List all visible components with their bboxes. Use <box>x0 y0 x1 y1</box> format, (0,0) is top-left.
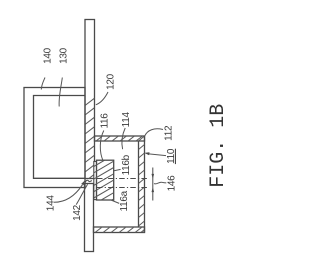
svg-text:130: 130 <box>59 47 70 64</box>
housing inner wall / cavity 130 <box>34 96 86 179</box>
hatching of right wall <box>139 136 145 235</box>
hatching of lead bar 120 <box>85 89 95 191</box>
dimension line for 146 <box>152 168 154 201</box>
leader for 116 <box>100 131 104 162</box>
reference dash-dot line (bottom of overlap) <box>97 187 148 189</box>
leader for 140 <box>41 78 45 90</box>
svg-text:112: 112 <box>164 125 175 141</box>
dimension arrowhead pointing down <box>152 174 155 179</box>
svg-text:FIG. 1B: FIG. 1B <box>207 104 230 188</box>
element 116 (hatched box, parts 116a/116b) <box>97 160 114 200</box>
svg-text:144: 144 <box>46 195 57 212</box>
svg-text:116b: 116b <box>121 154 132 175</box>
leader for 116b <box>114 169 121 170</box>
dimension arrowhead pointing up <box>152 187 155 192</box>
hatching of bottom wall <box>87 228 150 233</box>
package top wall (part of case 112) <box>95 136 145 141</box>
leader for 120 <box>96 92 108 105</box>
svg-text:114: 114 <box>121 112 132 128</box>
hatching of top wall <box>88 136 151 141</box>
leader for 112 <box>145 129 163 136</box>
leader arrow for 110 <box>148 154 167 156</box>
leader for 130 <box>59 78 62 107</box>
leader for 116a <box>111 200 120 204</box>
lead bar 142 (lower vertical strip) <box>85 184 94 252</box>
svg-text:140: 140 <box>42 47 53 64</box>
reference dash-dot line (top of overlap) <box>97 178 148 180</box>
svg-text:116a: 116a <box>119 190 130 211</box>
solder joint 144 (squiggle) <box>85 180 92 182</box>
svg-text:116: 116 <box>100 113 111 129</box>
svg-text:146: 146 <box>167 175 178 192</box>
leader for 146 <box>154 182 166 184</box>
leader for 142 <box>76 184 87 204</box>
housing outer wall 140 <box>24 88 85 188</box>
svg-text:142: 142 <box>72 204 83 221</box>
narrow mounting bar on left of element 116 <box>94 162 97 200</box>
package right wall (case 112) <box>139 136 145 233</box>
lead bar 120 (upper vertical strip) <box>85 20 95 179</box>
svg-text:120: 120 <box>106 73 117 90</box>
underline of 110 <box>174 149 176 164</box>
package bottom wall (case 112) <box>94 227 145 233</box>
leader arrow for 144 <box>54 185 83 203</box>
hatching of element 116 <box>94 149 114 217</box>
leader for 114 <box>122 128 125 149</box>
